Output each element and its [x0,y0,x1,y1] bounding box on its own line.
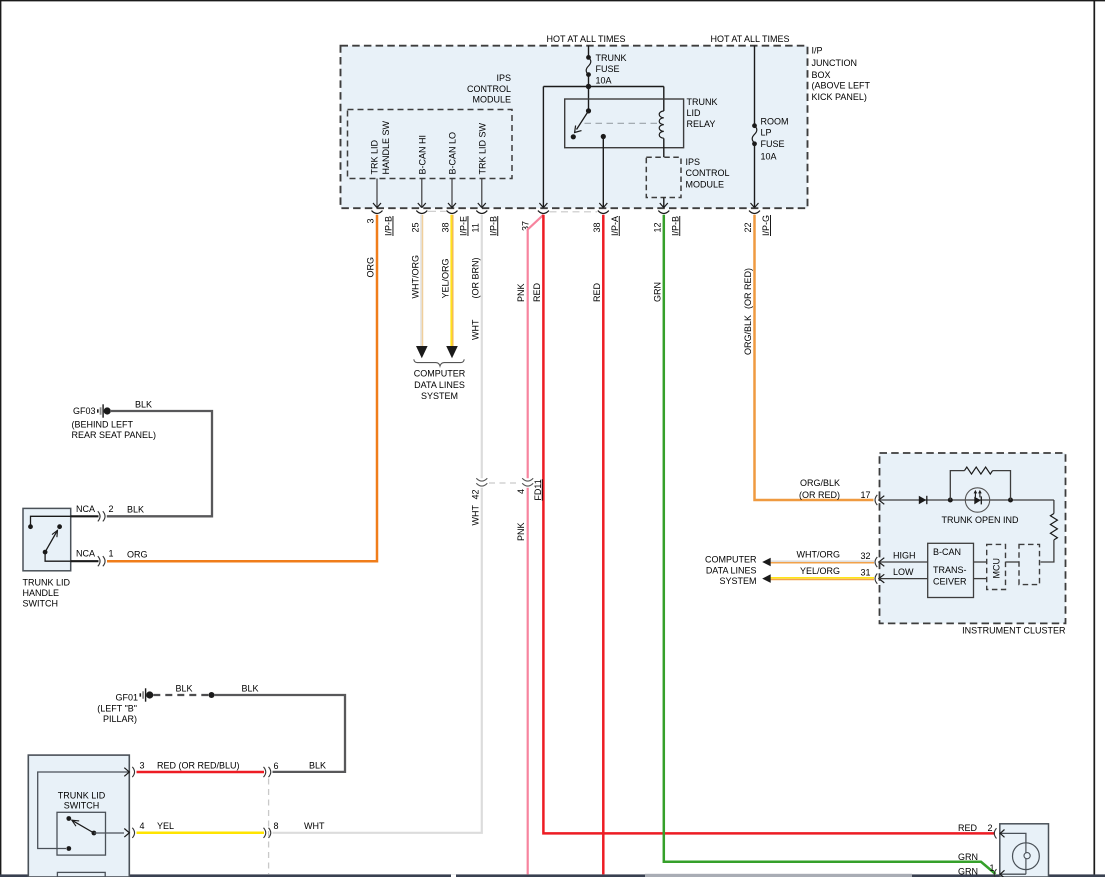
svg-text:WHT: WHT [304,821,325,831]
svg-text:22: 22 [743,222,753,232]
B-CAN transceiver U1 [928,543,974,597]
svg-text:KICK PANEL): KICK PANEL) [812,92,867,102]
label computer data lines system (right) [705,555,757,587]
svg-text:YEL/ORG: YEL/ORG [800,566,840,576]
svg-text:RED: RED [958,823,978,833]
wire MCU to driver box [1006,561,1020,563]
svg-text:RED: RED [532,282,542,302]
svg-text:WHT: WHT [470,505,480,526]
svg-text:HOT AT ALL TIMES: HOT AT ALL TIMES [546,34,625,44]
svg-text:INSTRUMENT CLUSTER: INSTRUMENT CLUSTER [962,626,1066,636]
node: fuse output junction [543,84,663,89]
wire YEL/ORG pin38 to data lines [441,215,458,358]
connector pin 1 (lamp) [958,852,1005,877]
labels ORG/BLK (OR RED) near pin 17 [799,478,871,500]
svg-text:CONTROL: CONTROL [686,168,730,178]
wire WHT/ORG cluster to data lines [762,550,874,567]
svg-text:25: 25 [410,222,420,232]
wire ORG/BLK pin22 to instrument cluster [743,215,874,500]
svg-text:FUSE: FUSE [596,64,620,74]
svg-text:LID: LID [687,108,702,118]
wire pin17 to lamp circuit [879,499,1054,501]
svg-text:CONTROL: CONTROL [467,84,511,94]
svg-text:SYSTEM: SYSTEM [421,391,458,401]
svg-text:GF03: GF03 [73,406,96,416]
pin 11 I/P-B [470,203,498,236]
svg-text:31: 31 [860,568,870,578]
svg-text:I/P-B: I/P-B [384,216,394,236]
connector pin 3 (trunk lid switch) [124,761,239,778]
wire WHT below FD11 [273,488,482,833]
connector pin 17 [875,495,884,505]
svg-text:38: 38 [592,222,602,232]
svg-text:WHT: WHT [470,319,480,340]
svg-text:RELAY: RELAY [687,119,716,129]
svg-text:HIGH: HIGH [893,551,916,561]
svg-text:12: 12 [652,222,662,232]
svg-text:17: 17 [860,490,870,500]
svg-text:ORG/BLK: ORG/BLK [743,315,753,355]
svg-text:PNK: PNK [516,522,526,541]
svg-text:GF01: GF01 [115,693,138,703]
wire BLK GF01 to connector 6 [214,684,345,772]
connector NCA 2 [71,504,144,521]
connector link 25-38 [428,210,446,212]
svg-text:MCU: MCU [992,558,1002,579]
svg-text:(OR RED): (OR RED) [799,490,840,500]
connector pin 4 (trunk lid switch) [124,821,174,838]
resistor R1 (parallel with LED) [950,467,1010,500]
svg-text:IPS: IPS [686,157,701,167]
svg-text:10A: 10A [596,76,612,86]
svg-text:HOT AT ALL TIMES: HOT AT ALL TIMES [710,34,789,44]
svg-text:COMPUTER: COMPUTER [414,369,466,379]
svg-text:4: 4 [516,489,526,494]
pin 38 I/P-A [592,203,620,236]
svg-text:ORG: ORG [127,550,148,560]
svg-text:ROOM: ROOM [761,117,789,127]
svg-text:(OR BRN): (OR BRN) [470,258,480,299]
svg-text:BLK: BLK [175,684,192,694]
svg-text:I/P-B: I/P-B [488,216,498,236]
svg-text:SWITCH: SWITCH [23,599,59,609]
svg-text:3: 3 [140,761,145,771]
fuse ROOM LP FUSE 10A [752,46,788,208]
MCU U2 [987,544,1006,589]
svg-text:WHT/ORG: WHT/ORG [410,255,420,299]
svg-text:TRUNK LID: TRUNK LID [23,578,71,588]
svg-text:BLK: BLK [241,684,258,694]
wire: IPS module to pin 12 [663,198,665,208]
svg-text:1: 1 [990,863,995,873]
in-line connector 6 [264,761,279,777]
relay TRUNK LID RELAY [565,97,718,148]
svg-text:11: 11 [470,223,480,232]
connector pin 2 (lamp) [958,823,1005,839]
svg-text:42: 42 [470,489,480,499]
wire YEL [137,832,265,835]
trunk lid switch [28,755,129,877]
svg-text:I/P-G: I/P-G [761,215,771,236]
svg-text:I/P-E: I/P-E [459,216,469,236]
svg-text:B-CAN HI: B-CAN HI [418,135,428,175]
resistor R2 (series) [1041,500,1058,562]
svg-text:COMPUTER: COMPUTER [705,555,757,565]
svg-text:8: 8 [274,821,279,831]
wire: bus to pin 37 [542,87,544,208]
svg-text:4: 4 [140,821,145,831]
svg-text:GRN: GRN [652,282,662,302]
pin 38 I/P-E [441,203,469,236]
svg-text:TRUNK LID: TRUNK LID [58,790,106,800]
svg-text:LP: LP [761,128,772,138]
instrument cluster [880,453,1066,636]
svg-text:SWITCH: SWITCH [64,801,100,811]
svg-text:JUNCTION: JUNCTION [812,58,858,68]
svg-text:FUSE: FUSE [761,139,785,149]
connector pin 32 [875,551,927,568]
wire GRN pin12 to trunk lamp [652,215,995,874]
IPS control module (relay driver) [646,157,729,198]
ground GF01 [97,688,153,724]
IPS control module (connector block) [348,73,513,179]
svg-text:BOX: BOX [812,70,831,80]
svg-text:YEL: YEL [157,821,174,831]
svg-text:(LEFT "B": (LEFT "B" [97,704,137,714]
wire RED (OR RED/BLU) [137,771,265,774]
diode D1 [919,496,927,504]
svg-text:RED: RED [592,282,602,302]
trunk lid handle switch [23,508,71,608]
svg-text:B-CAN LO: B-CAN LO [448,132,458,175]
label HOT AT ALL TIMES (right) [710,34,789,44]
wire YEL/ORG cluster to data lines [762,566,874,583]
connector pin 31 [875,567,927,584]
pin 12 I/P-B [652,203,680,236]
svg-text:BLK: BLK [135,400,152,410]
svg-text:NCA: NCA [76,504,95,514]
svg-text:TRUNK: TRUNK [687,97,718,107]
computer data lines system brace [414,359,466,401]
svg-text:RED (OR RED/BLU): RED (OR RED/BLU) [157,761,240,771]
wires B-CAN to MCU [974,562,987,579]
wire: bus to relay coil [663,87,665,112]
svg-text:HANDLE: HANDLE [23,588,60,598]
svg-text:TRANS-: TRANS- [933,565,967,575]
pin 37 [521,203,549,231]
driver dashed box [1019,544,1040,584]
pin name TRK LID SW [478,122,488,174]
svg-text:I/P-B: I/P-B [670,216,680,236]
svg-text:B-CAN: B-CAN [933,547,961,557]
pin 22 I/P-G [743,203,771,236]
svg-text:WHT/ORG: WHT/ORG [797,550,841,560]
wire RED pin37 to trunk lamp [532,215,995,834]
svg-text:2: 2 [988,823,993,833]
svg-text:LOW: LOW [893,567,914,577]
svg-text:ORG: ORG [366,257,376,278]
ground GF03 [72,404,157,440]
svg-text:PILLAR): PILLAR) [103,714,137,724]
trunk lamp [1000,824,1049,877]
svg-text:PNK: PNK [516,283,526,302]
svg-text:10A: 10A [761,152,777,162]
svg-text:ORG/BLK: ORG/BLK [800,478,840,488]
in-line connector 8 [264,821,325,838]
svg-text:REAR SEAT PANEL): REAR SEAT PANEL) [72,430,157,440]
wire ORG pin3 to handle switch [107,215,377,561]
svg-text:I/P-A: I/P-A [610,216,620,236]
indicator LED TRUNK OPEN IND [941,488,1019,525]
svg-text:TRUNK: TRUNK [596,53,627,63]
wire PNK below FD11 off-page [516,488,528,875]
pin 3 I/P-B [366,203,394,236]
pin name B-CAN LO [448,132,458,175]
I/P junction box [341,46,871,209]
svg-text:MODULE: MODULE [686,179,725,189]
label HOT AT ALL TIMES (left) [546,34,625,44]
wires from IPS connector block to border [377,179,482,208]
connector NCA 1 [71,549,148,567]
pin 25 [410,203,427,233]
connector link 37-38 [550,211,598,213]
svg-text:MODULE: MODULE [472,95,511,105]
connector link 6-8 [268,779,270,875]
svg-text:3: 3 [366,218,376,223]
svg-text:TRUNK OPEN IND: TRUNK OPEN IND [941,515,1019,525]
svg-text:YEL/ORG: YEL/ORG [441,258,451,298]
svg-text:SYSTEM: SYSTEM [719,576,756,586]
wire RED pin38 down off-page [592,215,604,875]
svg-text:DATA LINES: DATA LINES [414,380,465,390]
svg-text:2: 2 [109,504,114,514]
wire WHT (OR BRN) pin11 to FD11 [470,215,482,479]
svg-text:6: 6 [274,761,279,771]
svg-text:FD11: FD11 [533,479,543,500]
svg-text:CEIVER: CEIVER [933,577,967,587]
svg-text:1: 1 [109,549,114,559]
svg-text:IPS: IPS [496,73,511,83]
wire WHT/ORG pin25 to data lines [410,215,427,358]
fuse TRUNK FUSE 10A [586,46,626,87]
svg-text:NCA: NCA [76,549,95,559]
svg-text:32: 32 [860,551,870,561]
svg-text:GRN: GRN [958,852,978,862]
wire BLK dashed GF01 [153,684,214,699]
node: LED branch right [1008,498,1013,503]
pin name TRK LID HANDLE SW [370,120,392,174]
pin name B-CAN HI [418,135,428,175]
wire PNK pin37 to FD11 [516,215,543,479]
svg-text:(OR RED): (OR RED) [743,268,753,309]
svg-text:GRN: GRN [958,867,978,877]
node: LED branch left [948,498,953,503]
svg-text:I/P: I/P [812,46,823,56]
in-line connector FD11 [470,478,543,500]
svg-text:TRK LID SW: TRK LID SW [478,122,488,174]
svg-text:38: 38 [441,222,451,232]
wire: bus to relay switch [588,87,590,111]
wire BLK GF03 to handle switch [107,400,212,517]
wire: relay coil to IPS module [663,138,665,157]
svg-text:BLK: BLK [309,760,326,770]
svg-text:(BEHIND LEFT: (BEHIND LEFT [72,420,134,430]
svg-text:DATA LINES: DATA LINES [706,565,757,575]
svg-text:(ABOVE LEFT: (ABOVE LEFT [812,80,871,90]
svg-text:BLK: BLK [127,505,144,515]
wire: relay switch output to pin 38 [602,137,604,208]
